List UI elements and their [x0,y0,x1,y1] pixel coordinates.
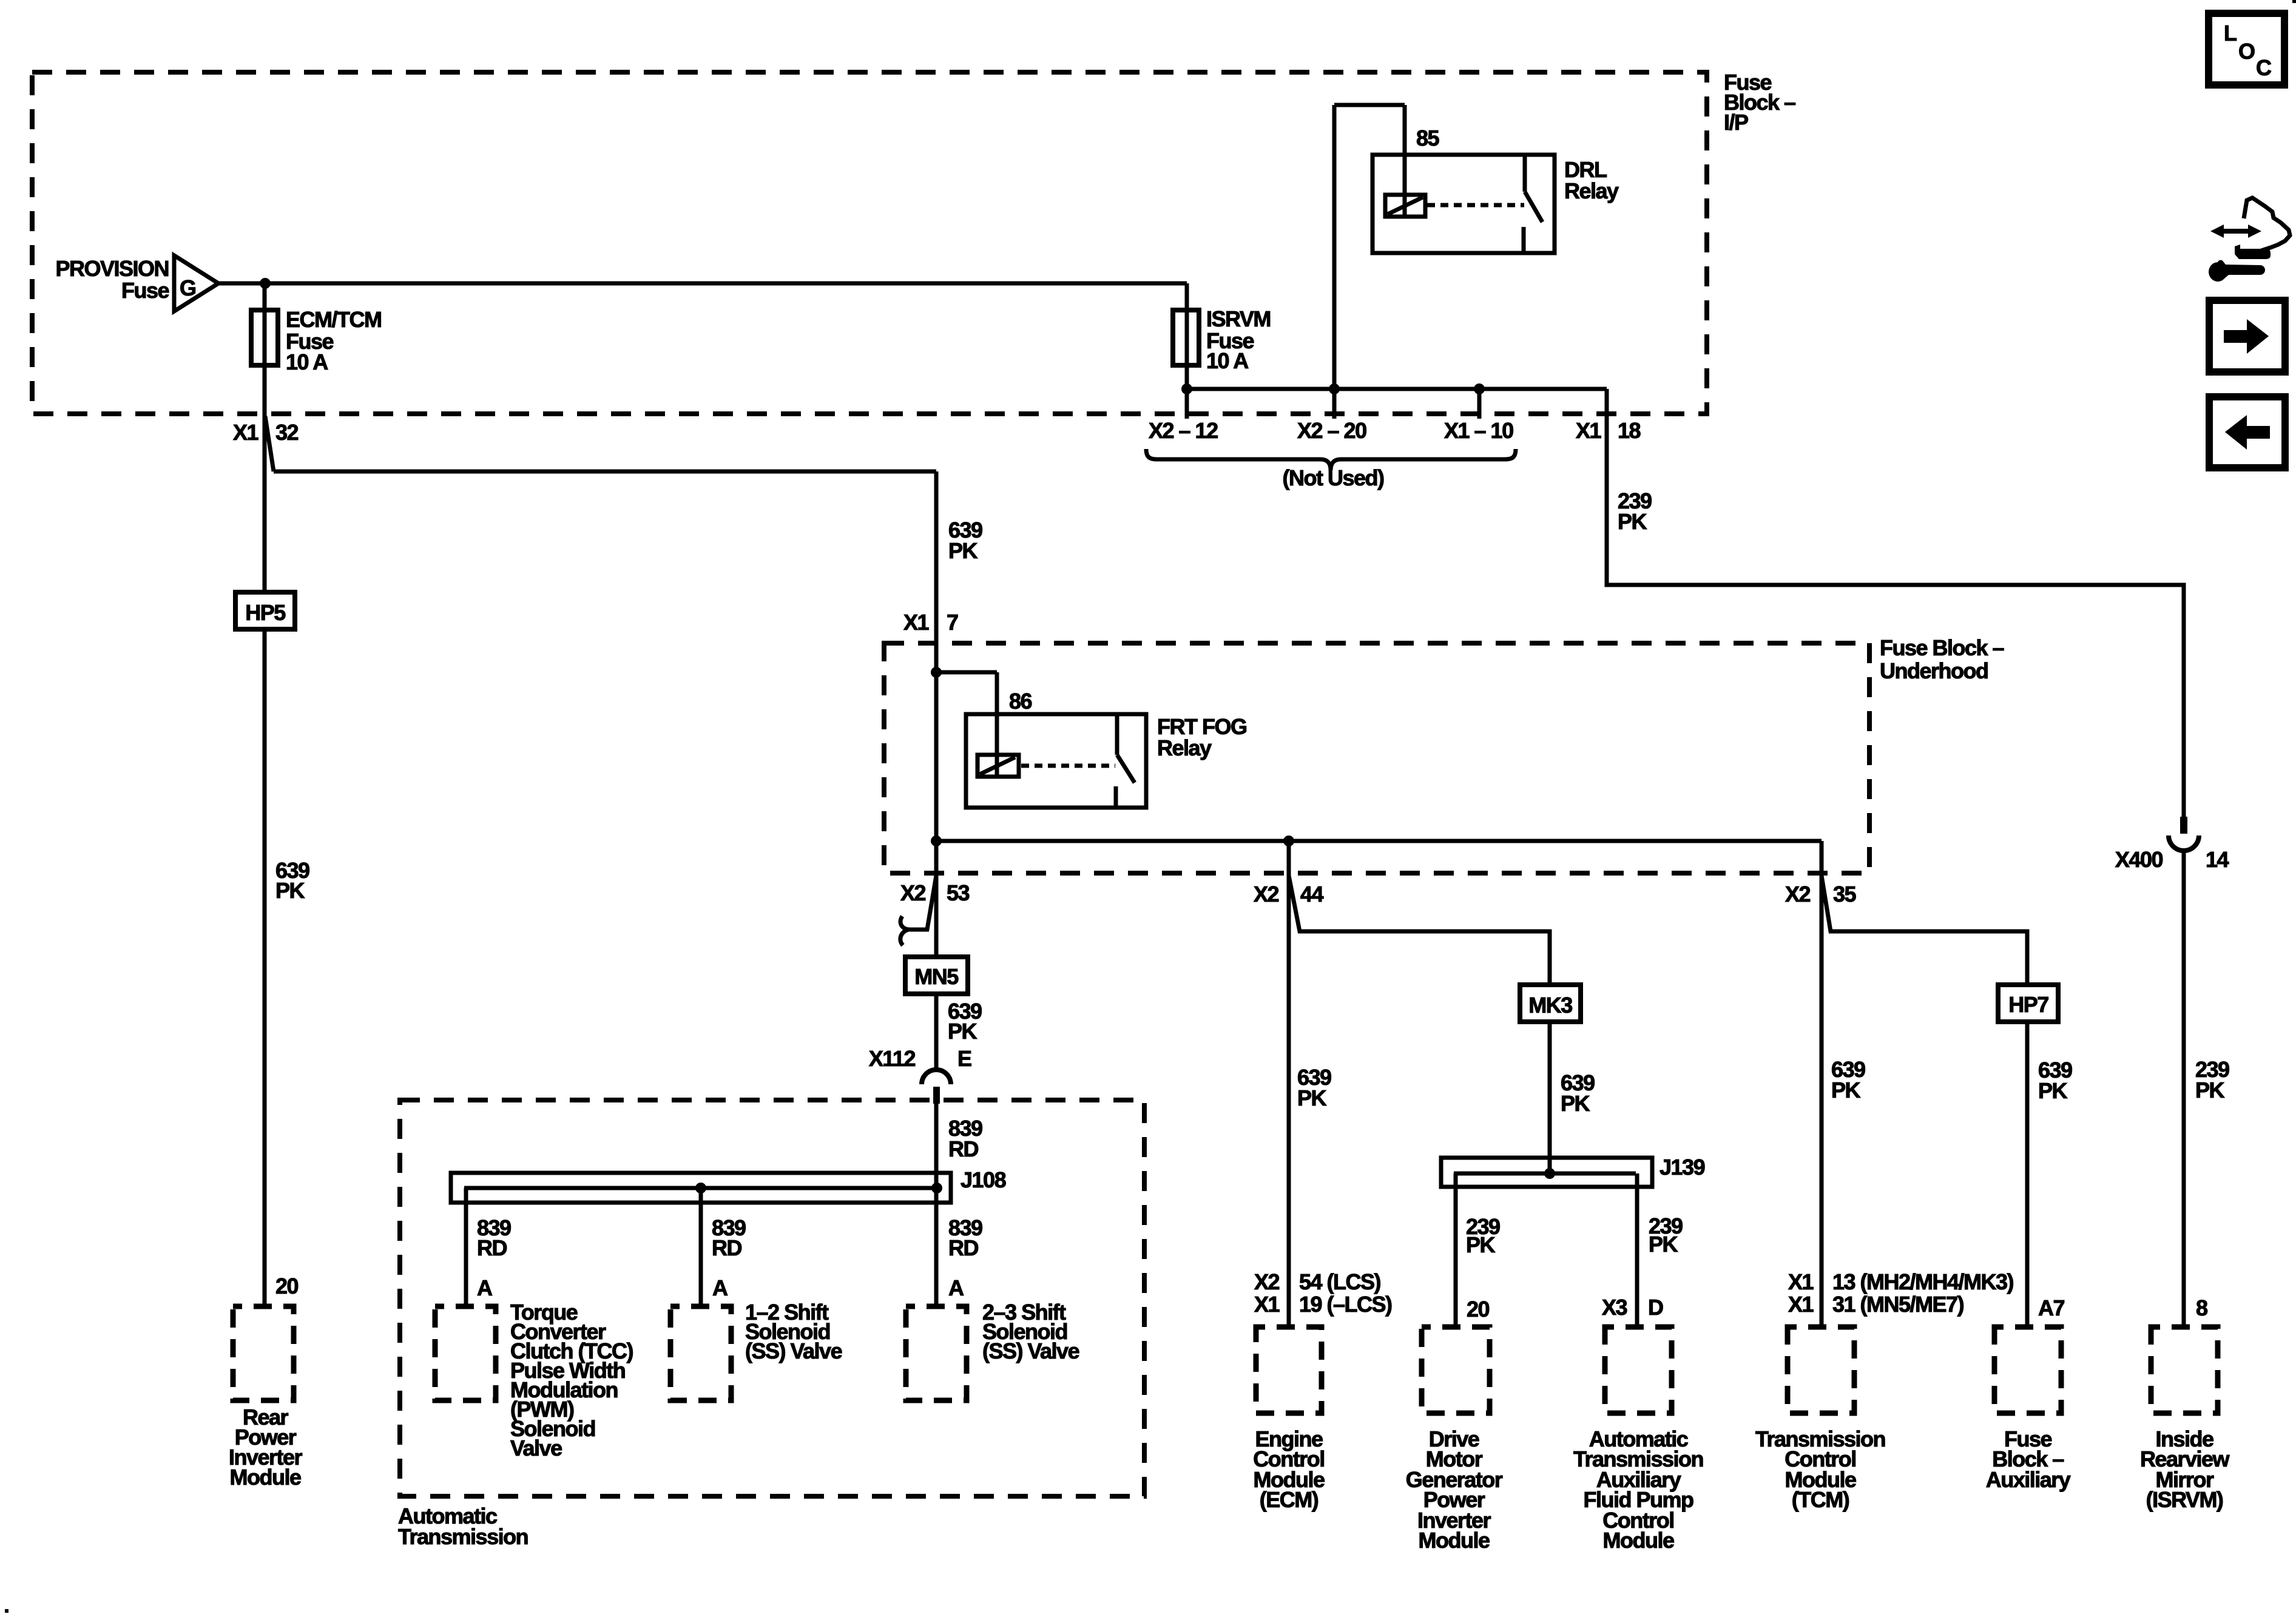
svg-text:(SS) Valve: (SS) Valve [982,1338,1079,1363]
wire: MN5 to X112 [934,994,939,1070]
splice MK3 [1520,985,1581,1022]
svg-text:(ISRVM): (ISRVM) [2146,1487,2223,1512]
svg-text:L: L [2224,21,2237,46]
wire label 239 PK [1618,488,1652,534]
wire: X1-32 horizontal to underhood feed [274,470,936,474]
splice HP5 [235,592,295,629]
wire: X400 down to ISRVM module [2182,851,2186,1327]
svg-text:32: 32 [275,420,299,445]
wire: DRL relay coil feed [1334,105,1405,419]
svg-text:X2 – 20: X2 – 20 [1297,418,1366,443]
wire labels 239 PK [1466,1214,1683,1257]
automatic transmission dashed box [400,1100,1144,1496]
svg-text:A: A [712,1275,728,1300]
svg-text:14: 14 [2206,847,2229,872]
svg-text:X2 – 12: X2 – 12 [1149,418,1218,443]
icon arrow back [2209,397,2285,468]
svg-text:PK: PK [1466,1232,1496,1257]
svg-text:PK: PK [948,1019,977,1044]
svg-text:X1: X1 [1254,1292,1280,1317]
connector: TCC solenoid valve [435,1306,496,1400]
svg-text:X400: X400 [2115,847,2163,872]
connector X112 E symbol [869,1046,971,1071]
svg-text:13 (MH2/MH4/MK3): 13 (MH2/MH4/MK3) [1832,1269,2014,1294]
svg-text:C: C [2256,55,2272,80]
svg-text:X1: X1 [903,610,930,635]
svg-text:RD: RD [948,1136,978,1161]
relay FRT FOG coil [977,755,1019,777]
wire: MK3 to J139 [1548,1022,1552,1173]
svg-text:10 A: 10 A [286,349,328,374]
wire: X2-35 branch to HP7 [1822,876,2027,985]
connector X1 7 label [903,610,958,635]
fuse block underhood dashed box [884,643,1869,873]
svg-text:PROVISION: PROVISION [55,256,169,281]
svg-text:G: G [180,275,196,300]
wire: X2-44 branch to MK3 [1289,876,1550,985]
svg-text:X1: X1 [233,420,259,445]
wire: vertical 639 PK down to underhood X1-7 and MN5 [934,471,939,957]
wire label 639 PK [948,518,982,563]
svg-text:(SS) Valve: (SS) Valve [745,1338,842,1363]
svg-text:Fuse: Fuse [121,278,169,303]
splice HP7 [1998,985,2058,1022]
provision fuse label [55,256,195,303]
svg-text:19 (–LCS): 19 (–LCS) [1299,1292,1392,1317]
svg-text:86: 86 [1009,689,1032,714]
svg-text:X2: X2 [1254,882,1279,906]
connector X2 35 [1785,882,1857,906]
wire labels 839 RD [477,1215,982,1260]
svg-text:A: A [477,1275,493,1300]
connector X2 44 [1254,882,1324,906]
svg-text:PK: PK [1618,509,1647,534]
fuse ECM/TCM label [286,307,381,374]
svg-text:A: A [948,1275,964,1300]
wire: bus under fuses in I/P block [1187,389,1607,419]
svg-text:X1 – 10: X1 – 10 [1444,418,1513,443]
svg-text:31 (MN5/ME7): 31 (MN5/ME7) [1832,1292,1964,1317]
connector: 2-3 shift solenoid valve [906,1306,967,1400]
hook lead symbol [900,916,910,945]
connector: engine control module [1256,1327,1322,1413]
page corner mark [5,1609,8,1613]
svg-text:X1: X1 [1576,418,1602,443]
svg-text:Underhood: Underhood [1880,658,1988,683]
svg-text:PK: PK [2195,1078,2225,1102]
wire: underhood bus [936,841,1822,1327]
fuse block I/P label [1724,70,1795,135]
connector: ATAFP control module [1605,1327,1672,1413]
svg-text:X112: X112 [869,1046,916,1071]
svg-text:Valve: Valve [510,1436,562,1460]
svg-text:HP7: HP7 [2008,992,2048,1017]
svg-text:PK: PK [275,878,305,903]
svg-text:X1: X1 [1788,1269,1814,1294]
wire: J139 right drop to ATAFP module [1635,1173,1639,1327]
svg-text:8: 8 [2196,1295,2207,1320]
svg-text:PK: PK [2038,1078,2068,1103]
connector X1 pin 32 slant [265,416,274,471]
svg-text:HP5: HP5 [245,600,286,625]
svg-text:10 A: 10 A [1206,348,1249,373]
svg-text:Relay: Relay [1157,735,1212,760]
svg-text:20: 20 [1467,1297,1490,1322]
svg-text:Module: Module [230,1465,301,1490]
wire: HP7 down to fuse block auxiliary [2025,1022,2030,1327]
svg-text:Module: Module [1603,1528,1674,1553]
connector: inside rearview mirror [2151,1327,2218,1413]
wire: ECM/TCM fuse branch down to rear power inverter module [263,283,267,1306]
svg-text:7: 7 [947,610,958,635]
wire: X112 down through J108 to 2-3 shift solenoid [934,1104,939,1306]
connector X1 32 label [233,420,299,445]
svg-text:J139: J139 [1660,1155,1705,1180]
connector: fuse block auxiliary [1994,1327,2061,1413]
svg-text:RD: RD [477,1235,507,1260]
svg-text:X1: X1 [1788,1292,1814,1317]
svg-text:I/P: I/P [1724,110,1748,135]
svg-text:RD: RD [712,1235,741,1260]
icon LOC box [2209,13,2284,85]
relay FRT FOG contact dashed link [1021,764,1115,768]
wire label 639 PK (MK3) [1561,1070,1595,1116]
svg-text:Auxiliary: Auxiliary [1986,1467,2071,1492]
svg-text:(ECM): (ECM) [1260,1487,1319,1512]
connector pins X2 54 / X1 19 [1254,1269,1392,1317]
relay FRT FOG switch [1116,714,1135,808]
relay DRL switch [1524,155,1542,253]
node: junction to FRT FOG relay [931,667,942,678]
node: junction at ECM/TCM fuse tap [260,278,271,289]
svg-text:(TCM): (TCM) [1792,1487,1849,1512]
connector X400 symbol [2180,817,2187,834]
wire: to FRT FOG relay pin 86 [936,672,997,777]
svg-text:X2: X2 [900,880,926,905]
svg-text:ECM/TCM: ECM/TCM [286,307,381,332]
wire: X1-18 to X400 / ISRVM run [1607,389,2184,817]
svg-text:X3: X3 [1602,1295,1627,1320]
fuse ISRVM 10A [1185,283,1189,419]
pin A labels [477,1275,964,1300]
splice pack J139 [1441,1158,1652,1187]
svg-text:85: 85 [1416,126,1440,150]
svg-text:X2: X2 [1785,882,1811,906]
svg-text:O: O [2238,39,2255,64]
svg-text:PK: PK [1831,1078,1861,1102]
svg-text:A7: A7 [2038,1295,2064,1320]
wire: J139 left drop to drive motor inverter [1454,1173,1458,1327]
svg-text:53: 53 [947,880,970,905]
fuse block I/P dashed box [32,72,1707,414]
icon tow/service vehicle [2209,198,2290,282]
provision fuse G triangle [174,255,218,311]
connector: transmission control module [1788,1327,1854,1413]
connector: 1-2 shift solenoid valve [670,1306,731,1400]
wire label 639 PK (ECM) [1297,1065,1331,1110]
brace not used [1146,449,1516,470]
svg-text:Transmission: Transmission [398,1524,528,1549]
wire: J108 left drop to TCC solenoid [464,1188,468,1306]
connector: drive motor generator power inverter module [1422,1327,1490,1413]
wire: provision G feed to ISRVM fuse [218,282,1187,286]
svg-text:(Not Used): (Not Used) [1283,465,1384,490]
svg-text:J108: J108 [961,1167,1006,1192]
relay DRL contact dashed link [1427,203,1524,208]
wire label 639 PK (TCM) [1831,1057,1865,1102]
connector pin labels X2-12 X2-20 X1-10 X1 18 [1149,418,1641,443]
svg-text:MK3: MK3 [1528,993,1572,1018]
svg-text:PK: PK [1649,1232,1678,1257]
connector: rear power inverter module [233,1306,294,1400]
icon arrow next [2209,300,2285,372]
svg-text:X2: X2 [1254,1269,1280,1294]
svg-text:ISRVM: ISRVM [1206,306,1271,331]
relay FRT FOG box [966,714,1146,808]
relay FRT FOG label [1157,714,1246,760]
relay DRL coil [1385,195,1425,217]
wire label 639 PK (HP7) [2038,1058,2072,1103]
svg-text:54 (LCS): 54 (LCS) [1299,1269,1381,1294]
wire label 239 PK (ISRVM) [2195,1057,2229,1102]
svg-text:44: 44 [1300,882,1324,906]
relay DRL box [1373,155,1555,253]
svg-text:Fuse Block –: Fuse Block – [1880,635,2004,660]
connector X3 D label [1602,1295,1663,1320]
wire label 839 RD (above J108) [948,1116,982,1161]
relay DRL label [1564,157,1619,203]
svg-text:20: 20 [275,1274,299,1298]
wire: X2-44 down to ECM [1287,841,1291,1327]
connector X2 53 [900,880,970,905]
svg-text:Relay: Relay [1564,178,1619,203]
node dots on bus [1181,383,1192,394]
svg-text:35: 35 [1833,882,1857,906]
svg-text:RD: RD [948,1235,978,1260]
svg-text:18: 18 [1618,418,1641,443]
splice MN5 [905,957,968,994]
svg-text:PK: PK [948,538,978,563]
splice pack J108 [451,1173,951,1203]
svg-text:PK: PK [1561,1091,1590,1116]
svg-text:MN5: MN5 [914,964,959,989]
svg-text:PK: PK [1297,1085,1327,1110]
svg-text:E: E [957,1046,971,1071]
wire label 639 PK (left branch) [275,858,309,903]
svg-text:Module: Module [1419,1528,1490,1553]
fuse ECM/TCM 10A [251,310,278,365]
wire: J108 middle drop to 1-2 shift solenoid [699,1188,703,1306]
connector pins X1 13 / X1 31 [1788,1269,2014,1317]
svg-text:D: D [1648,1295,1663,1320]
